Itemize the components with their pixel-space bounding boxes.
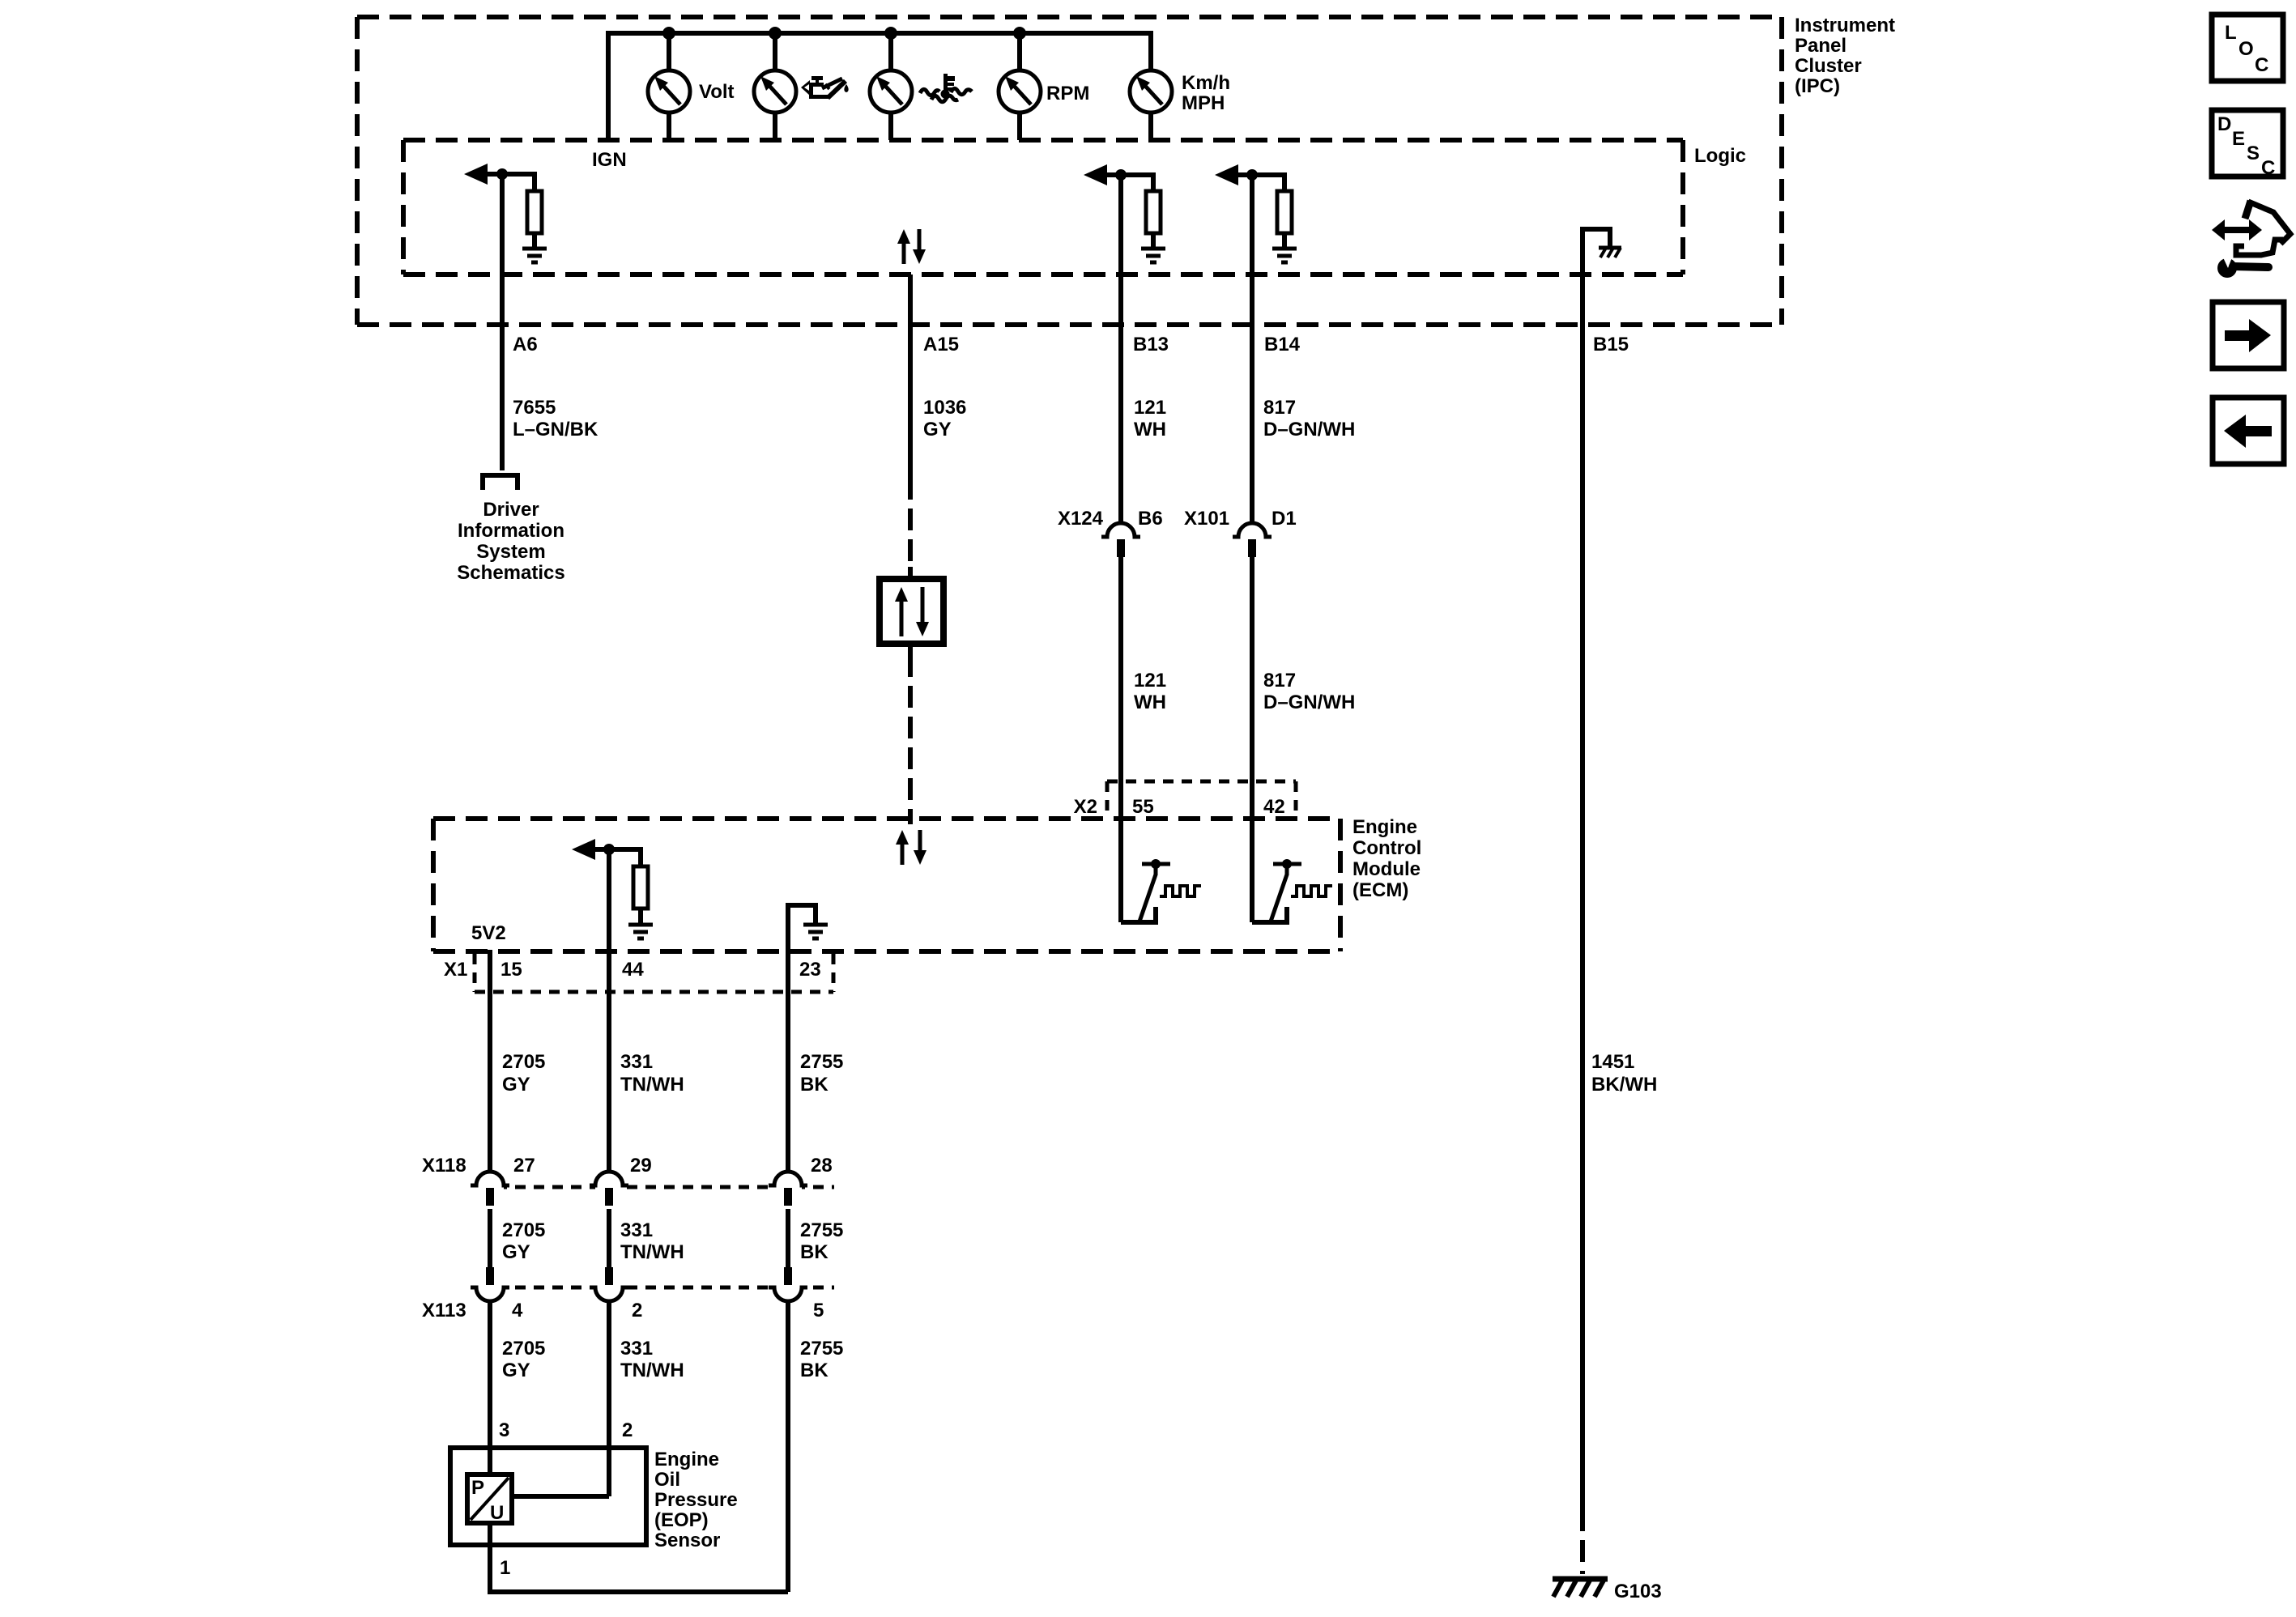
svg-text:4: 4 xyxy=(512,1300,523,1321)
svg-text:Instrument: Instrument xyxy=(1795,15,1895,36)
svg-text:2705: 2705 xyxy=(502,1338,545,1360)
svg-text:A15: A15 xyxy=(923,334,959,355)
svg-text:D–GN/WH: D–GN/WH xyxy=(1263,419,1355,440)
svg-text:B13: B13 xyxy=(1133,334,1169,355)
svg-text:2: 2 xyxy=(632,1300,642,1321)
svg-text:C: C xyxy=(2255,54,2268,76)
svg-text:P: P xyxy=(471,1477,484,1499)
svg-text:2755: 2755 xyxy=(800,1338,843,1360)
svg-text:X118: X118 xyxy=(422,1155,466,1177)
svg-text:D–GN/WH: D–GN/WH xyxy=(1263,691,1355,713)
svg-text:BK: BK xyxy=(800,1074,829,1096)
svg-text:C: C xyxy=(2261,157,2275,179)
svg-text:Schematics: Schematics xyxy=(457,562,564,584)
svg-text:MPH: MPH xyxy=(1182,92,1225,114)
svg-text:BK: BK xyxy=(800,1360,829,1381)
svg-text:U: U xyxy=(490,1502,504,1524)
svg-text:WH: WH xyxy=(1134,691,1166,713)
svg-text:44: 44 xyxy=(622,959,644,981)
svg-text:Volt: Volt xyxy=(699,81,735,103)
svg-text:Sensor: Sensor xyxy=(654,1530,720,1551)
svg-text:E: E xyxy=(2232,128,2245,150)
svg-text:2705: 2705 xyxy=(502,1051,545,1073)
svg-text:817: 817 xyxy=(1263,397,1296,419)
svg-text:(IPC): (IPC) xyxy=(1795,75,1840,97)
svg-text:GY: GY xyxy=(502,1074,530,1096)
svg-text:TN/WH: TN/WH xyxy=(620,1360,684,1381)
svg-text:Engine: Engine xyxy=(654,1449,719,1470)
svg-text:B14: B14 xyxy=(1264,334,1301,355)
svg-text:5: 5 xyxy=(813,1300,824,1321)
svg-text:1451: 1451 xyxy=(1591,1051,1634,1073)
svg-text:Driver: Driver xyxy=(483,499,539,521)
svg-text:System: System xyxy=(476,541,545,563)
svg-text:RPM: RPM xyxy=(1046,83,1089,104)
svg-text:Panel: Panel xyxy=(1795,35,1847,57)
svg-text:TN/WH: TN/WH xyxy=(620,1074,684,1096)
svg-text:BK: BK xyxy=(800,1241,829,1263)
svg-text:Cluster: Cluster xyxy=(1795,55,1862,77)
svg-text:X101: X101 xyxy=(1184,508,1229,530)
svg-text:2755: 2755 xyxy=(800,1051,843,1073)
svg-text:Module: Module xyxy=(1352,858,1421,880)
svg-text:2705: 2705 xyxy=(502,1219,545,1241)
svg-text:GY: GY xyxy=(502,1360,530,1381)
svg-text:2: 2 xyxy=(622,1419,633,1441)
svg-text:X1: X1 xyxy=(444,959,467,981)
svg-text:B6: B6 xyxy=(1138,508,1163,530)
svg-text:2755: 2755 xyxy=(800,1219,843,1241)
svg-text:(EOP): (EOP) xyxy=(654,1509,709,1531)
svg-text:Pressure: Pressure xyxy=(654,1489,738,1511)
svg-text:D1: D1 xyxy=(1272,508,1297,530)
svg-text:5V2: 5V2 xyxy=(471,922,506,944)
svg-text:TN/WH: TN/WH xyxy=(620,1241,684,1263)
svg-text:IGN: IGN xyxy=(592,149,627,171)
svg-text:28: 28 xyxy=(811,1155,833,1177)
svg-text:D: D xyxy=(2217,113,2231,135)
svg-text:42: 42 xyxy=(1263,796,1285,818)
svg-text:GY: GY xyxy=(923,419,952,440)
svg-text:55: 55 xyxy=(1132,796,1154,818)
svg-text:S: S xyxy=(2247,143,2260,164)
svg-text:29: 29 xyxy=(630,1155,652,1177)
svg-text:121: 121 xyxy=(1134,397,1166,419)
svg-text:Logic: Logic xyxy=(1694,145,1746,167)
svg-text:23: 23 xyxy=(799,959,821,981)
svg-text:121: 121 xyxy=(1134,670,1166,691)
svg-text:Oil: Oil xyxy=(654,1469,680,1491)
svg-text:Km/h: Km/h xyxy=(1182,72,1230,94)
svg-text:X2: X2 xyxy=(1074,796,1097,818)
svg-text:331: 331 xyxy=(620,1051,653,1073)
svg-text:1: 1 xyxy=(500,1557,510,1579)
svg-text:27: 27 xyxy=(513,1155,535,1177)
svg-text:WH: WH xyxy=(1134,419,1166,440)
svg-text:GY: GY xyxy=(502,1241,530,1263)
svg-text:Engine: Engine xyxy=(1352,816,1417,838)
svg-text:817: 817 xyxy=(1263,670,1296,691)
svg-text:(ECM): (ECM) xyxy=(1352,879,1408,901)
svg-text:B15: B15 xyxy=(1593,334,1629,355)
svg-text:Control: Control xyxy=(1352,837,1421,859)
svg-text:1036: 1036 xyxy=(923,397,966,419)
svg-text:15: 15 xyxy=(501,959,522,981)
svg-text:331: 331 xyxy=(620,1219,653,1241)
svg-text:X124: X124 xyxy=(1058,508,1104,530)
svg-text:3: 3 xyxy=(499,1419,509,1441)
svg-text:L–GN/BK: L–GN/BK xyxy=(513,419,598,440)
svg-text:331: 331 xyxy=(620,1338,653,1360)
svg-text:L: L xyxy=(2225,22,2237,44)
svg-text:A6: A6 xyxy=(513,334,538,355)
svg-text:Information: Information xyxy=(458,520,564,542)
svg-text:7655: 7655 xyxy=(513,397,556,419)
svg-text:O: O xyxy=(2238,38,2254,60)
svg-text:BK/WH: BK/WH xyxy=(1591,1074,1657,1096)
svg-text:G103: G103 xyxy=(1614,1581,1662,1602)
svg-text:X113: X113 xyxy=(422,1300,466,1321)
